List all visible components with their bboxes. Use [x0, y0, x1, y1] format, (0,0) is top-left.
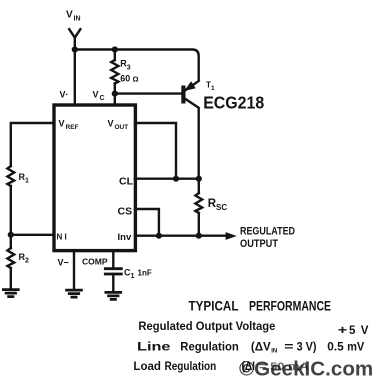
svg-text:Inv: Inv — [118, 232, 132, 243]
output arrow head — [226, 232, 237, 240]
svg-text:=: = — [284, 341, 294, 353]
text TYPICAL PERFORMANCE heading — [189, 298, 332, 313]
svg-text:CS: CS — [118, 206, 133, 218]
node CS/Inv — [156, 233, 162, 239]
label R2 — [19, 252, 30, 265]
svg-text:TYPICAL: TYPICAL — [189, 298, 239, 313]
svg-text:mV: mV — [347, 341, 365, 353]
label R1 — [19, 172, 30, 185]
wire left rail R1 to R2 — [10, 186, 12, 248]
svg-text:Line: Line — [137, 341, 171, 353]
wire top rail Vin to transistor emitter corner — [75, 50, 199, 81]
svg-text:Ω: Ω — [133, 75, 139, 84]
svg-text:V: V — [66, 10, 73, 21]
node collector/CL/Rsc — [196, 176, 202, 182]
wire Vref pin to left rail — [11, 123, 54, 166]
wire CS pin to Inv rail — [135, 209, 159, 236]
node Vin/top rail — [72, 46, 78, 52]
text performance line 1 — [138, 321, 368, 337]
junction node dots — [8, 46, 202, 238]
Vin input terminal — [69, 29, 80, 49]
svg-text:(ΔI: (ΔI — [242, 361, 256, 373]
wire R2 to ground — [10, 268, 12, 289]
wire Vout pin to CL node — [135, 123, 176, 179]
svg-text:V: V — [93, 90, 99, 100]
svg-text:V·: V· — [60, 90, 69, 100]
svg-text:PERFORMANCE: PERFORMANCE — [249, 298, 331, 313]
svg-text:COMP: COMP — [82, 257, 108, 267]
node R1/R2/NI — [8, 232, 14, 238]
node Rsc/output — [196, 233, 202, 239]
svg-text:1nF: 1nF — [138, 269, 152, 278]
svg-text:3 V): 3 V) — [297, 341, 317, 353]
svg-text:1: 1 — [25, 178, 29, 185]
IC U1 regulator box — [54, 105, 135, 251]
svg-text:1: 1 — [211, 85, 215, 92]
transistor T1 base bar — [181, 86, 185, 104]
svg-text:©GeekIC.com: ©GeekIC.com — [239, 358, 373, 380]
node Vc — [112, 91, 118, 97]
svg-text:CL: CL — [119, 176, 134, 188]
ground under R2 — [3, 290, 18, 297]
wire C1 to ground — [112, 274, 114, 292]
svg-text:(ΔV: (ΔV — [251, 341, 271, 353]
svg-text:Regulation: Regulation — [165, 361, 217, 373]
resistor Rsc body — [195, 193, 202, 213]
svg-text:Regulation: Regulation — [180, 341, 239, 353]
svg-text:ECG218: ECG218 — [203, 93, 264, 113]
svg-text:SC: SC — [216, 203, 227, 212]
wire Vc pin lead — [114, 94, 116, 104]
label Vref (pin) — [59, 119, 79, 132]
resistor R3 body — [111, 60, 118, 84]
svg-text:V: V — [361, 325, 369, 337]
label Vout (pin) — [108, 119, 129, 132]
svg-text:+: + — [338, 325, 348, 337]
svg-text:C: C — [100, 95, 105, 102]
label Rsc — [208, 198, 228, 212]
text performance line 2 — [137, 341, 365, 354]
wire V- pin to ground — [73, 252, 75, 289]
svg-text:N I: N I — [57, 233, 67, 242]
ground under C1 — [106, 292, 121, 299]
label REGULATED OUTPUT — [240, 226, 295, 251]
label Vin — [66, 10, 81, 23]
svg-text:REF: REF — [66, 124, 79, 131]
svg-text:OUTPUT: OUTPUT — [240, 238, 278, 250]
svg-text:V−: V− — [58, 258, 69, 268]
svg-text:V: V — [108, 119, 114, 129]
svg-text:OUT: OUT — [115, 124, 129, 131]
svg-text:IN: IN — [74, 16, 81, 23]
svg-text:REGULATED: REGULATED — [240, 226, 295, 238]
resistor R1 body — [7, 166, 14, 186]
wire V+ pin lead — [74, 50, 76, 105]
label Vc — [93, 90, 105, 103]
resistor R3 leads — [114, 50, 116, 94]
svg-text:V: V — [59, 119, 65, 129]
transistor Q1 emitter wire — [186, 81, 199, 90]
svg-text:0.5: 0.5 — [327, 341, 344, 353]
transistor Q1 collector wire — [186, 99, 199, 179]
label R3 — [120, 59, 138, 84]
svg-text:3: 3 — [127, 64, 131, 71]
svg-text:Regulated Output Voltage: Regulated Output Voltage — [138, 321, 275, 333]
svg-text:60: 60 — [120, 74, 130, 84]
svg-text:IN: IN — [271, 348, 277, 354]
wire Vc node to transistor base — [115, 92, 182, 94]
resistor Rsc leads — [198, 179, 200, 236]
svg-text:5: 5 — [349, 325, 356, 337]
wire CL pin rail — [135, 177, 199, 179]
text performance line 3 — [133, 361, 255, 373]
node R3 top — [112, 46, 118, 52]
svg-text:2: 2 — [25, 258, 29, 265]
wire Inv pin to output — [135, 234, 228, 236]
label C1 1nF — [124, 268, 152, 281]
label T1 — [206, 81, 215, 93]
resistor R2 body — [7, 248, 14, 268]
capacitor C1 plates — [105, 269, 121, 274]
svg-text:1: 1 — [131, 273, 135, 280]
node Vout/CL — [173, 176, 179, 182]
wire COMP pin to capacitor C1 — [112, 252, 114, 268]
transistor T1 emitter arrow — [186, 83, 195, 90]
svg-text:Load: Load — [133, 361, 161, 373]
wire NI pin lead — [11, 234, 54, 236]
ground under V- pin — [67, 290, 82, 297]
